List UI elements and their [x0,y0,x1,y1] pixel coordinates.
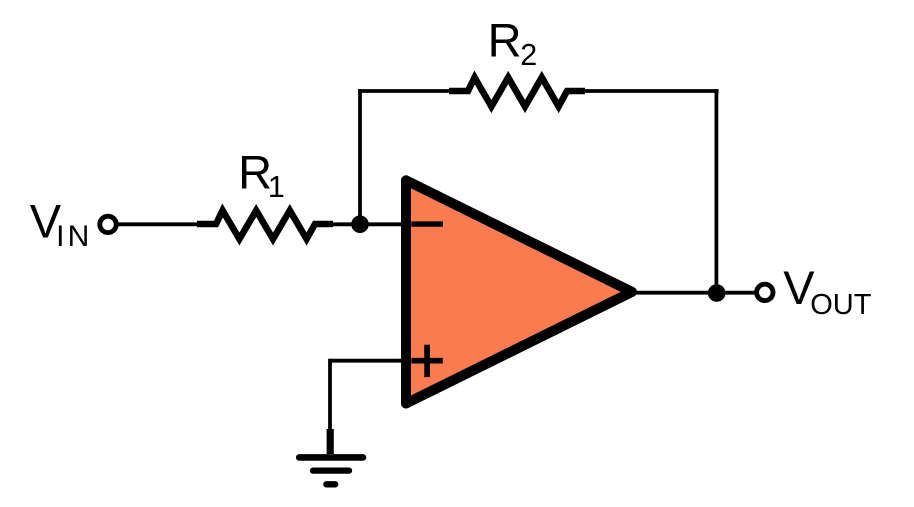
wire output [632,291,755,295]
wire feedback left vertical [358,89,362,224]
svg-text:OUT: OUT [810,289,872,321]
op-amp minus input marker [411,221,443,226]
ground [299,429,363,484]
wire non-inverting input horizontal [330,359,406,363]
wire feedback top left horizontal [358,89,450,93]
junction output node [708,284,726,302]
op-amp U1 [406,180,632,403]
wire feedback top right horizontal [583,89,719,93]
svg-text:1: 1 [268,170,285,204]
V_OUT label [783,261,872,321]
wire feedback right vertical [715,89,719,293]
node VOUT terminal [757,284,773,300]
label R2 [488,14,538,72]
svg-text:2: 2 [520,38,537,72]
resistor R1 [197,211,333,240]
V_IN label [30,195,93,254]
op-amp plus input marker [411,345,442,377]
junction inverting node [351,215,369,233]
resistor R2 [449,78,585,107]
svg-text:R: R [488,14,522,67]
label R1 [238,146,285,204]
wire input [119,222,200,226]
wire from R1 to op-amp inverting input [331,222,402,226]
wire non-inverting input vertical to ground [328,359,332,430]
node VIN terminal [100,216,116,232]
svg-text:IN: IN [56,220,92,253]
